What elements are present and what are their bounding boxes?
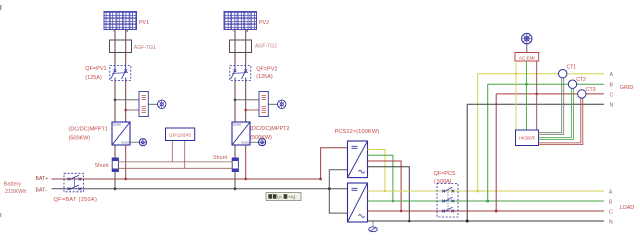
- wire phase C load bus: [368, 210, 605, 212]
- svg-text:AGF-TG1: AGF-TG1: [134, 45, 156, 51]
- node tap +: [114, 99, 117, 102]
- wire phase A grid bus: [478, 73, 604, 75]
- wire PV1- string: [125, 30, 127, 66]
- wire tap: [235, 99, 259, 101]
- wire: [234, 81, 236, 123]
- svg-text:C: C: [610, 92, 614, 98]
- svg-text:LOAD: LOAD: [620, 205, 635, 211]
- wire PCS1 AC output: [368, 167, 410, 221]
- wire tap: [126, 109, 139, 111]
- wire: [245, 81, 247, 123]
- svg-text:DC/DC: DC/DC: [113, 123, 121, 127]
- breaker pole: [68, 178, 71, 181]
- node BAT+ to PCS: [319, 178, 322, 181]
- wire PCS1 AC output: [368, 150, 386, 192]
- edge mark: [0, 5, 2, 10]
- wire shunt sense lower: [118, 167, 232, 169]
- arc-fault detector AGF-TG1: [110, 40, 132, 53]
- indicator meter PV2: [278, 100, 286, 108]
- svg-text:DC/DC: DC/DC: [233, 123, 241, 127]
- wire EMI/meter tap: [526, 61, 528, 130]
- EMI filter AC EMI: [515, 53, 539, 62]
- breaker pole: [442, 200, 445, 203]
- junction: [408, 220, 411, 223]
- junction: [384, 190, 387, 193]
- svg-text:QF=PCS: QF=PCS: [434, 171, 456, 177]
- PV array PV2: [224, 12, 257, 30]
- wire grid riser: [477, 74, 479, 191]
- surge arrester symbol: [522, 33, 532, 52]
- transducer marks: [262, 96, 267, 100]
- wire EMI/meter tap: [515, 61, 517, 130]
- wire shunt to BAT- bus: [114, 172, 116, 189]
- svg-text:(500KW): (500KW): [69, 135, 91, 141]
- svg-text:A: A: [609, 190, 613, 196]
- DC/DC converter MPPT2: [232, 122, 250, 145]
- wire: [148, 103, 157, 105]
- wire shunt to BAT- bus: [234, 172, 236, 189]
- wire neutral load bus: [368, 220, 605, 222]
- svg-text:LDF11024S: LDF11024S: [169, 132, 191, 137]
- junction: [244, 178, 247, 181]
- wire phase C grid bus: [496, 93, 604, 95]
- svg-text:(DC/DC)MPPT2: (DC/DC)MPPT2: [250, 126, 289, 132]
- node tap -: [124, 109, 127, 112]
- breaker pole: [245, 66, 247, 70]
- junction: [535, 93, 538, 96]
- wire sense to monitor: [184, 141, 186, 169]
- svg-text:DC/DC: DC/DC: [122, 141, 130, 145]
- shunt MPPT2: [232, 158, 238, 172]
- node tap -: [244, 109, 247, 112]
- svg-text:BAT+: BAT+: [36, 176, 49, 182]
- junction: [328, 187, 331, 190]
- wire PCS1 AC output: [368, 161, 402, 211]
- wire DC loop to PCS: [329, 170, 347, 213]
- node tap +: [234, 99, 237, 102]
- breaker QF=PV1: [110, 66, 131, 81]
- junction: [525, 83, 528, 86]
- PCS inverter lower: [348, 183, 368, 222]
- junction: [495, 210, 498, 213]
- svg-text:QF=PV2: QF=PV2: [256, 67, 277, 73]
- polarity marks: [113, 30, 129, 32]
- wire phase B load bus: [368, 200, 605, 202]
- wire: [268, 103, 277, 105]
- wire: [114, 81, 116, 123]
- svg-text:N: N: [609, 220, 613, 226]
- breaker linkage: [232, 72, 248, 75]
- breaker pole: [68, 187, 71, 190]
- arc-fault detector AGF-TG2: [230, 40, 252, 53]
- wire PV2+ string: [234, 30, 236, 66]
- breaker QF=PCS: [437, 184, 458, 218]
- svg-text:AGF-TG2: AGF-TG2: [255, 44, 277, 50]
- PV array PV1: [104, 12, 137, 30]
- svg-text:PV1: PV1: [139, 20, 149, 26]
- svg-text:PV2: PV2: [259, 20, 269, 26]
- breaker pole: [442, 210, 445, 213]
- breaker linkage: [447, 189, 449, 212]
- DC voltage transducer PV1: [139, 92, 148, 117]
- breaker QF=PV2: [230, 66, 251, 81]
- svg-text:CT2: CT2: [576, 77, 586, 83]
- svg-text:PCS12×(100KW): PCS12×(100KW): [335, 129, 380, 135]
- svg-text:Shunt: Shunt: [95, 163, 110, 169]
- svg-text:Shunt: Shunt: [213, 155, 228, 161]
- wire: [125, 81, 127, 123]
- wire grid riser: [495, 94, 497, 211]
- svg-text:215KWh: 215KWh: [5, 189, 26, 195]
- svg-text:Battery: Battery: [4, 181, 22, 187]
- svg-text:B: B: [609, 199, 613, 205]
- svg-text:N: N: [610, 103, 614, 109]
- svg-text:AC EMI: AC EMI: [519, 55, 535, 60]
- svg-text:( 500A): ( 500A): [434, 179, 452, 185]
- CT secondary wires CT2: [539, 87, 574, 139]
- breaker pole: [234, 66, 236, 70]
- net label box: [266, 193, 301, 201]
- svg-text:C: C: [609, 209, 613, 215]
- svg-text:CT3: CT3: [586, 87, 596, 93]
- wire neutral grid bus: [467, 103, 604, 105]
- transducer marks: [142, 96, 147, 100]
- junction: [124, 178, 127, 181]
- wire tap: [115, 99, 139, 101]
- junction: [476, 190, 479, 193]
- shunt MPPT1: [112, 158, 118, 172]
- DC/DC converter MPPT1: [112, 122, 130, 145]
- breaker pole: [442, 190, 445, 193]
- svg-text:CT1: CT1: [567, 64, 577, 70]
- indicator meter MPPT2: [250, 139, 266, 146]
- wire MPPT+ to BAT+ bus: [245, 145, 247, 179]
- breaker QF=BAT: [64, 173, 84, 192]
- wire grid riser: [466, 104, 468, 221]
- junction: [515, 72, 518, 75]
- svg-text:BAT-: BAT-: [36, 187, 47, 193]
- junction: [486, 200, 489, 203]
- battery monitor LDF11024S: [166, 128, 195, 141]
- svg-text:GRID: GRID: [620, 85, 634, 91]
- svg-text:(125A): (125A): [85, 75, 102, 81]
- svg-text:QF=PV1: QF=PV1: [85, 66, 106, 72]
- wire tap: [246, 109, 259, 111]
- svg-text:(125A): (125A): [256, 74, 273, 80]
- edge mark: [0, 213, 2, 217]
- current transformer CT2: [568, 80, 576, 88]
- junction: [400, 210, 403, 213]
- breaker linkage: [73, 177, 75, 187]
- breaker linkage: [112, 72, 128, 75]
- DC voltage transducer PV2: [259, 92, 268, 117]
- wire PV2- string: [245, 30, 247, 66]
- svg-text:HK300/5: HK300/5: [519, 136, 536, 141]
- wire: [234, 145, 236, 158]
- wire EMI/meter tap: [536, 61, 538, 130]
- wire sense to monitor: [171, 141, 173, 162]
- breaker pole: [125, 66, 127, 70]
- polarity marks: [233, 30, 249, 32]
- wire shunt sense upper: [118, 161, 232, 163]
- indicator meter MPPT1: [130, 139, 146, 146]
- wire phase B grid bus: [488, 83, 604, 85]
- wire BAT- bus: [52, 188, 348, 190]
- wire PCS1 AC output: [368, 155, 393, 201]
- wire PV1+ string: [114, 30, 116, 66]
- wire BAT+ riser to PCS1: [321, 148, 348, 179]
- wire: [114, 145, 116, 158]
- svg-text:A: A: [610, 72, 614, 78]
- svg-text:+A): +A): [288, 195, 296, 200]
- svg-text:B: B: [610, 83, 614, 89]
- svg-text:(DC/DC)MPPT1: (DC/DC)MPPT1: [69, 127, 108, 133]
- meter HK300/5: [516, 130, 539, 146]
- junction: [234, 187, 237, 190]
- wire MPPT+ to BAT+ bus: [125, 145, 127, 179]
- svg-text:DC/DC: DC/DC: [242, 141, 250, 145]
- breaker pole: [114, 66, 116, 70]
- ground: [369, 221, 378, 232]
- wire phase A load bus: [368, 190, 605, 192]
- wire grid riser: [487, 84, 489, 201]
- CT secondary wires CT1: [539, 77, 564, 135]
- svg-text:QF=BAT (250A): QF=BAT (250A): [54, 197, 98, 203]
- junction: [392, 200, 395, 203]
- svg-text:(500KW): (500KW): [250, 135, 272, 141]
- wire BAT+ bus: [52, 178, 321, 180]
- current transformer CT3: [578, 90, 586, 98]
- junction: [114, 187, 117, 190]
- current transformer CT1: [559, 70, 567, 78]
- CT secondary wires CT3: [539, 97, 583, 145]
- junction: [466, 220, 469, 223]
- PCS inverter upper: [348, 141, 368, 178]
- indicator meter PV1: [158, 100, 166, 108]
